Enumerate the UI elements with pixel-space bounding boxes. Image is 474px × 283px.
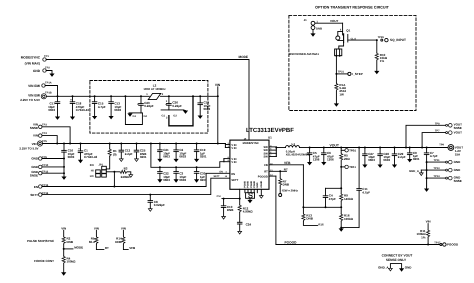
svg-text:0603: 0603 [179, 155, 186, 159]
svg-text:1%: 1% [421, 235, 426, 239]
resistor R12 [238, 189, 253, 222]
svg-text:Q1: Q1 [346, 29, 350, 33]
svg-text:DNB: DNB [67, 240, 74, 244]
svg-text:TP26: TP26 [378, 36, 385, 39]
ground AGND pin [259, 189, 263, 198]
svg-text:0603: 0603 [383, 158, 390, 162]
test point TP15 EN [34, 184, 49, 189]
terminal TP9 VOUT power [439, 143, 463, 156]
svg-text:GND: GND [405, 265, 413, 269]
svg-text:15A: 15A [455, 152, 461, 156]
ground [49, 74, 54, 77]
svg-text:VIN: VIN [121, 226, 126, 230]
ground test point TP10 [31, 164, 65, 169]
capacitor C22 [157, 166, 170, 182]
capacitor C13 [109, 95, 122, 119]
resistor R16 [339, 207, 359, 231]
jumper JP1 EN select [90, 163, 116, 188]
svg-text:1206: 1206 [313, 158, 320, 162]
svg-text:DNB: DNB [115, 240, 122, 244]
svg-text:MODE: MODE [238, 55, 248, 59]
svg-text:VIN: VIN [426, 220, 431, 224]
svg-text:+: + [70, 98, 72, 102]
svg-text:TP4: TP4 [42, 132, 47, 135]
capacitor C30 [194, 166, 207, 182]
terminal TP13 GND with GND_A tap [409, 167, 461, 175]
wire VIN EMI rail [47, 95, 150, 97]
svg-text:TP9: TP9 [439, 143, 444, 146]
terminal TP7 VOUT [421, 130, 462, 149]
svg-text:TP8: TP8 [435, 122, 440, 125]
capacitor C25 [134, 143, 147, 162]
svg-text:GND: GND [256, 182, 259, 188]
capacitor C16 [61, 143, 74, 180]
capacitor C26 feedthrough [161, 95, 194, 126]
svg-text:DNB: DNB [283, 183, 290, 187]
svg-text:VOUT: VOUT [454, 131, 463, 135]
capacitor C4 [323, 188, 336, 208]
svg-text:C7343-43: C7343-43 [76, 108, 90, 112]
wire VIN pin bus [225, 144, 230, 148]
svg-text:100kΩ: 100kΩ [344, 217, 354, 221]
wire VFB from FB pin [269, 161, 303, 208]
capacitor C29 [392, 147, 406, 168]
svg-text:CONNECT BY VOUT: CONNECT BY VOUT [382, 254, 413, 258]
svg-text:VIN: VIN [215, 83, 221, 87]
capacitor C10 [221, 199, 234, 220]
capacitor C8 [148, 194, 165, 212]
svg-text:RT: RT [264, 171, 268, 174]
svg-text:4.7µF: 4.7µF [98, 105, 106, 109]
svg-text:G2: G2 [173, 114, 177, 117]
svg-text:VIN: VIN [32, 142, 37, 146]
resistor R2 pulse skip [27, 226, 74, 249]
svg-text:100Ω AT 100MHz: 100Ω AT 100MHz [143, 87, 166, 91]
test point TP4 VIN [33, 132, 58, 144]
svg-text:47pF: 47pF [329, 197, 336, 201]
wire SETT rail [42, 178, 230, 194]
wire SW bus to L1 [269, 147, 286, 157]
svg-text:EN: EN [90, 163, 94, 167]
terminal TP14 GND SNSE [426, 175, 462, 183]
wire VIN rail [43, 143, 226, 145]
resistor R5 with TPB1 TPA1 [340, 147, 357, 189]
svg-text:2.25V TO 5.5V: 2.25V TO 5.5V [20, 98, 40, 102]
svg-text:SNSE: SNSE [454, 126, 462, 130]
svg-text:U1: U1 [268, 136, 272, 140]
ferrite bead L2 [143, 83, 166, 99]
test point TP1A VIN EMI [28, 81, 57, 96]
capacitor C7 [424, 147, 437, 162]
svg-text:G1: G1 [162, 114, 166, 117]
svg-text:PULSE SKIP/SYNC: PULSE SKIP/SYNC [27, 239, 55, 243]
capacitor C2 [174, 143, 187, 163]
resistor R13 [302, 207, 324, 226]
svg-text:4.7µF: 4.7µF [430, 154, 438, 158]
wire MODE/SYNC to U1 [46, 60, 249, 141]
svg-text:GND_A: GND_A [378, 265, 389, 269]
ground test point TP6 [31, 156, 65, 161]
resistor R1A [334, 74, 347, 107]
test point TP3 VIN SNSE [30, 122, 71, 144]
jumper GND_A to GND [378, 264, 412, 272]
wire FB node rail [302, 206, 342, 208]
svg-text:GND: GND [31, 165, 39, 169]
capacitor C20 feedthrough [124, 95, 153, 124]
connector J1 [304, 18, 322, 37]
svg-text:G2: G2 [144, 115, 148, 118]
svg-text:VIN EMI: VIN EMI [28, 84, 40, 88]
svg-text:DNB: DNB [227, 208, 234, 212]
svg-text:G1: G1 [133, 115, 137, 118]
resistor R14 VFB pullup [115, 226, 136, 249]
capacitor C6 [321, 147, 334, 166]
svg-text:ITH: ITH [217, 195, 221, 198]
current loop CL_A [336, 36, 340, 40]
svg-text:FB: FB [264, 164, 268, 167]
svg-text:VIN: VIN [33, 134, 38, 138]
svg-text:SW: SW [263, 156, 268, 159]
note connect by vout sense only [382, 254, 413, 263]
svg-text:0201: 0201 [140, 155, 147, 159]
svg-text:0603: 0603 [179, 178, 186, 182]
svg-text:MODE/SYNC: MODE/SYNC [243, 142, 259, 145]
inductor L1 [286, 142, 310, 157]
svg-text:0.22µF: 0.22µF [172, 104, 182, 108]
svg-text:100kΩ: 100kΩ [67, 260, 77, 264]
svg-text:GND_A: GND_A [409, 169, 419, 173]
capacitor C11 [357, 147, 370, 228]
wire VIN second rail [150, 143, 230, 168]
svg-text:SNSE: SNSE [30, 174, 38, 178]
svg-text:2.25V TO 5.5V: 2.25V TO 5.5V [19, 146, 38, 150]
svg-text:60.4: 60.4 [89, 240, 95, 244]
svg-text:DNB: DNB [316, 27, 322, 31]
node TP26 SQ_INPUT [348, 36, 406, 42]
svg-text:0.022µF: 0.022µF [154, 203, 165, 207]
svg-text:J1: J1 [304, 18, 308, 22]
svg-text:0603: 0603 [114, 108, 121, 112]
transistor Q1 [338, 29, 357, 49]
capacitor C17 [48, 95, 60, 120]
node MODE/SYNC input test point TP1 [21, 55, 50, 66]
svg-text:SNSE: SNSE [454, 179, 462, 183]
node MODE stub [63, 245, 83, 250]
wire PGOOD net [269, 176, 439, 244]
svg-text:f SW = 2MHz: f SW = 2MHz [282, 188, 299, 192]
svg-text:4.7µF: 4.7µF [362, 190, 370, 194]
capacitor C3 [174, 166, 187, 182]
svg-text:DNB: DNB [306, 217, 313, 221]
svg-text:GND: GND [454, 168, 462, 172]
svg-text:TPB1: TPB1 [349, 149, 356, 152]
wire EN rail [42, 173, 230, 186]
svg-text:TP13: TP13 [433, 167, 440, 170]
svg-text:TP1A: TP1A [45, 81, 52, 84]
capacitor C14 [198, 95, 211, 119]
terminal TP8 VOUT SNSE [405, 122, 462, 148]
svg-text:(0): (0) [113, 152, 117, 156]
svg-text:0603: 0603 [163, 155, 170, 159]
test point TP16 SETT [30, 192, 48, 197]
capacitor C18 [70, 95, 89, 120]
svg-text:0603: 0603 [204, 107, 211, 111]
svg-text:0201: 0201 [200, 155, 207, 159]
svg-text:VIN: VIN [94, 226, 99, 230]
svg-text:TP21: TP21 [338, 71, 345, 74]
svg-text:HI: HI [91, 169, 94, 173]
svg-text:R3: R3 [124, 167, 128, 171]
capacitor C1 [78, 143, 98, 164]
capacitor C24 [237, 222, 251, 234]
transient response dashed box [289, 15, 416, 110]
svg-text:V IN: V IN [231, 161, 236, 164]
capacitor C12 [119, 143, 133, 162]
svg-text:SETT: SETT [231, 179, 238, 182]
svg-text:VIN EMI: VIN EMI [28, 93, 40, 97]
capacitor C15 [92, 95, 106, 119]
capacitor C21 [157, 143, 170, 163]
ground test point TP2 [33, 66, 52, 73]
terminal TP17 PGOOD [434, 241, 459, 246]
svg-text:R16: R16 [318, 222, 324, 226]
svg-text:PGOOD: PGOOD [258, 175, 268, 178]
resistor R11 PGOOD pullup [417, 220, 431, 246]
resistor R4 force cont [34, 249, 76, 276]
svg-text:SENSE ONLY: SENSE ONLY [386, 258, 407, 262]
svg-text:EN: EN [34, 185, 38, 189]
node ITH wire below chip [217, 195, 241, 199]
capacitor C19 [194, 143, 207, 163]
svg-text:+: + [78, 147, 80, 151]
svg-text:PGOOD: PGOOD [447, 243, 459, 247]
svg-text:TP3: TP3 [42, 123, 47, 126]
capacitor C9 [407, 147, 420, 163]
svg-text:0603: 0603 [48, 108, 55, 112]
svg-text:140kΩ: 140kΩ [344, 197, 354, 201]
capacitor C5 [307, 147, 320, 166]
svg-text:EN: EN [231, 173, 235, 176]
svg-text:RT: RT [284, 167, 288, 171]
svg-text:249kΩ: 249kΩ [121, 175, 131, 179]
wire J1 to Q1 drain VOUT [315, 19, 343, 36]
svg-text:PGOOD: PGOOD [285, 240, 298, 244]
resistor R10 [374, 40, 388, 74]
svg-text:TP7: TP7 [435, 130, 440, 133]
EMI filter dashed box [90, 81, 208, 134]
svg-text:4.99kΩ: 4.99kΩ [243, 210, 254, 214]
svg-text:BSC010NE2LSIATMA1: BSC010NE2LSIATMA1 [289, 52, 319, 56]
svg-text:SQ_INPUT: SQ_INPUT [390, 38, 406, 42]
resistor R9 [340, 187, 354, 207]
svg-text:SETT: SETT [214, 175, 221, 178]
op-amp U1 LTC3313 regulator IC [214, 127, 295, 189]
terminal TP11 GND [426, 159, 462, 164]
svg-text:(VIN MAX): (VIN MAX) [25, 62, 40, 66]
terminal TP5 VIN input [19, 140, 47, 150]
resistor R1 [106, 143, 117, 169]
resistor R7 on RT pin [269, 167, 299, 196]
svg-text:1206: 1206 [327, 158, 334, 162]
svg-text:V IN: V IN [231, 147, 236, 150]
svg-text:SETT: SETT [30, 193, 38, 197]
svg-text:20Ω: 20Ω [344, 157, 350, 161]
svg-text:I_STEP: I_STEP [352, 72, 363, 76]
svg-text:TPA1: TPA1 [349, 166, 356, 169]
svg-text:GND: GND [33, 69, 41, 73]
svg-text:0603: 0603 [68, 155, 75, 159]
wire feedback top [326, 187, 342, 189]
node TP21 I_STEP [335, 71, 362, 77]
ground test point TP12 [30, 170, 65, 177]
resistor Rb RT set [89, 226, 109, 249]
svg-text:C7343-43: C7343-43 [84, 155, 98, 159]
capacitor C27 [362, 147, 375, 168]
svg-text:GND: GND [31, 157, 39, 161]
svg-text:TP1B: TP1B [45, 91, 52, 94]
svg-text:1%: 1% [380, 59, 385, 63]
svg-text:RT: RT [105, 246, 109, 250]
ground net-tie below U1 [245, 189, 257, 203]
svg-text:XEL4020-R20MEC: XEL4020-R20MEC [286, 153, 310, 157]
capacitor C28 [378, 147, 391, 168]
svg-text:0603: 0603 [368, 158, 375, 162]
svg-text:1W: 1W [339, 92, 344, 96]
svg-text:2.2µF: 2.2µF [398, 155, 406, 159]
svg-text:TP14: TP14 [433, 175, 440, 178]
svg-text:2.2µF: 2.2µF [125, 152, 133, 156]
svg-text:MODE: MODE [74, 245, 83, 249]
svg-text:SNSE: SNSE [30, 126, 38, 130]
svg-text:TP11: TP11 [434, 159, 441, 162]
svg-text:VFB: VFB [129, 246, 136, 250]
svg-text:0.22µF: 0.22µF [144, 104, 154, 108]
svg-text:AGND: AGND [260, 180, 263, 187]
svg-text:MODE/SYNC: MODE/SYNC [21, 56, 41, 60]
terminal TP1B VIN EMI input [20, 91, 52, 102]
ground bus output side [424, 162, 429, 192]
svg-text:VIN: VIN [61, 226, 66, 230]
node VIN after EMI filter [215, 83, 221, 145]
svg-text:0603: 0603 [163, 178, 170, 182]
svg-text:0201: 0201 [413, 157, 420, 161]
svg-text:EN: EN [220, 170, 224, 173]
transistor Q1 source kelvin box [335, 49, 342, 74]
svg-text:VFB: VFB [284, 161, 291, 165]
svg-text:LTC3313EV#PBF: LTC3313EV#PBF [246, 127, 294, 134]
svg-text:GND: GND [454, 160, 462, 164]
svg-text:FORCE CONT: FORCE CONT [34, 259, 54, 263]
svg-text:C24: C24 [246, 222, 252, 226]
svg-text:VOUT: VOUT [330, 19, 339, 23]
resistor R3 [114, 167, 132, 179]
svg-text:OPTION TRANSIENT RESPONSE CIRC: OPTION TRANSIENT RESPONSE CIRCUIT [315, 6, 390, 10]
svg-text:VOUT: VOUT [330, 143, 340, 147]
svg-text:0201: 0201 [200, 178, 207, 182]
wire VOUT rail [310, 147, 448, 149]
